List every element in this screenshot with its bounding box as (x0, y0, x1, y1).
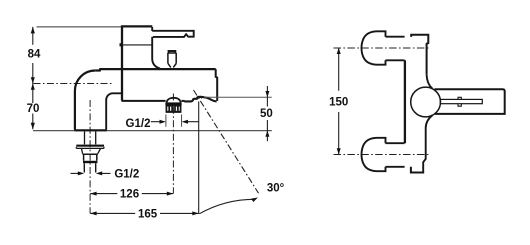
spout outlet extension vertical (198, 101, 200, 213)
30 degree stream dashed line (194, 90, 259, 193)
svg-text:G1/2: G1/2 (126, 118, 151, 130)
centerline spout tail (89, 100, 91, 213)
tail taper block (81, 148, 100, 153)
body bottom section (411, 167, 424, 173)
bottom union nut (362, 138, 386, 171)
body right edge (216, 69, 218, 101)
extension line top (84) (37, 26, 122, 28)
spout inner elbow (106, 93, 122, 129)
wire (27, 26, 285, 220)
body bottom edge left (122, 100, 166, 102)
housing right edge and base flare (152, 27, 160, 69)
svg-text:84: 84 (28, 49, 41, 61)
top union nut (362, 31, 386, 64)
bottom leg cylinder (386, 143, 405, 167)
body top section (411, 35, 428, 75)
svg-text:150: 150 (329, 96, 348, 108)
arrows 50 (265, 91, 269, 137)
extension lines G1/2 shower (166, 115, 182, 127)
dimension arrows 84/70 (31, 27, 35, 129)
spout outer elbow (75, 70, 95, 129)
lever boss circle (411, 87, 441, 117)
centerline shower outlet (172, 94, 174, 194)
cartridge housing (121, 26, 152, 100)
extension line 50 top (204, 96, 272, 98)
tail nut block (83, 154, 98, 161)
lever stem (440, 99, 482, 103)
dimension 50 vertical line (266, 86, 268, 141)
body bottom edge right of shower outlet (182, 100, 185, 102)
shower outlet dome (167, 98, 181, 103)
centerline horizontal spout axis (34, 83, 113, 85)
tail flange (76, 145, 104, 147)
shower outlet collar (165, 102, 181, 105)
body top edge (95, 69, 215, 70)
dimension G1/2 tail (71, 172, 111, 174)
arrows 150 (337, 48, 341, 155)
centerline top leg (334, 47, 430, 49)
svg-text:165: 165 (138, 208, 158, 220)
dimension 126 (90, 193, 173, 195)
dimension 150 vertical line (338, 48, 340, 155)
dimension 165 (90, 212, 199, 214)
svg-text:G1/2: G1/2 (114, 168, 139, 180)
centerline bottom leg (334, 154, 430, 156)
30 degree arc (199, 199, 255, 214)
spout tail neck (85, 132, 96, 145)
body upper fillet to boss (427, 75, 433, 89)
arc arrowhead (251, 198, 258, 203)
body lower fillet from boss (423, 115, 432, 171)
svg-text:30°: 30° (267, 182, 285, 194)
lever stem clip (458, 97, 461, 106)
svg-text:70: 70 (27, 103, 40, 115)
top leg cylinder (386, 37, 405, 61)
diverter knob (168, 51, 176, 67)
wire (329, 31, 505, 172)
tail thread (84, 163, 95, 172)
body left edge (404, 60, 406, 143)
lever front view (435, 89, 505, 114)
deck reference line (33, 130, 272, 132)
spout bottom edge (74, 129, 107, 131)
dimension G1/2 shower (151, 121, 199, 123)
lever handle (152, 31, 194, 37)
housing parting line (122, 44, 152, 46)
dimension 84/70 vertical line (32, 27, 34, 129)
body bottom wave / spout outlet (184, 97, 216, 102)
svg-text:50: 50 (260, 108, 273, 120)
svg-text:126: 126 (120, 189, 139, 201)
shower outlet thread (166, 106, 180, 112)
housing left nub (119, 43, 121, 46)
tail collar bar (83, 161, 97, 163)
